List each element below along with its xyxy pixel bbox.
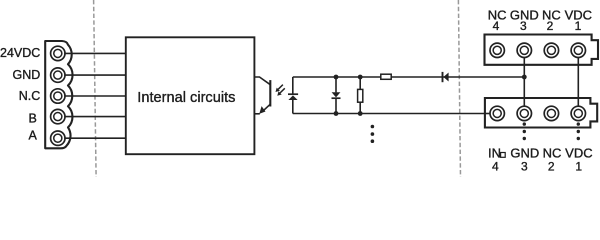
internal circuits block U1 <box>126 37 255 154</box>
left boundary dashed line (enclosure boundary) <box>94 0 97 177</box>
J2 label IN pin4 <box>488 145 505 160</box>
svg-text:Internal circuits: Internal circuits <box>137 90 235 106</box>
J1 pin 4 contact <box>490 43 504 57</box>
ellipsis continuation dots (J2 pin 1) <box>577 122 580 140</box>
wire VDC link top-to-bottom connector <box>577 58 579 107</box>
diode D3 (series, cathode left) <box>443 72 449 82</box>
wire 24VDC to internal circuits <box>64 52 126 54</box>
wire A to internal circuits <box>64 137 126 139</box>
optocoupler light arrow 2 <box>277 88 285 95</box>
junction dot bottom rail / R1 <box>358 111 363 116</box>
wire GND to internal circuits <box>64 74 126 76</box>
svg-text:1: 1 <box>575 160 582 174</box>
J2 pin 4 contact <box>490 106 504 120</box>
J1 pin 3 contact <box>517 43 531 57</box>
wire B to internal circuits <box>64 116 126 118</box>
J2 pin 3 contact <box>517 106 531 120</box>
terminal TB1-3 (N.C screw) <box>51 89 65 103</box>
svg-text:B: B <box>28 111 36 125</box>
svg-text:VDC: VDC <box>565 145 592 160</box>
wire N.C to internal circuits <box>64 95 126 97</box>
resistor R2 (series, horizontal) <box>381 74 391 79</box>
J1 pin 1 contact <box>571 43 585 57</box>
phototransistor Q1 collector lead <box>254 77 270 85</box>
terminal block TB1 body (scalloped) <box>45 41 72 148</box>
J2 pin 2 contact <box>544 106 558 120</box>
connector J1 body (top) <box>485 35 599 65</box>
svg-text:4: 4 <box>493 19 500 33</box>
svg-text:2: 2 <box>547 19 554 33</box>
junction dot top rail / D2 <box>334 75 339 80</box>
svg-text:3: 3 <box>520 19 527 33</box>
wire IN to J2 pin 4 <box>485 113 490 115</box>
wire GND link top-to-bottom connector <box>523 58 525 107</box>
svg-text:1: 1 <box>575 19 582 33</box>
phototransistor Q1 emitter lead with arrow <box>254 104 270 114</box>
phototransistor Q1 base bar <box>269 80 271 106</box>
junction dot bottom rail / D2 <box>334 111 339 116</box>
resistor R1 (shunt, vertical) <box>358 77 363 114</box>
J2 pin 1 stub <box>577 98 579 106</box>
svg-text:24VDC: 24VDC <box>0 46 40 60</box>
connector J2 body (bottom) <box>485 98 597 128</box>
svg-text:IN: IN <box>488 145 501 160</box>
svg-text:4: 4 <box>492 160 499 174</box>
J2 pin 3 stub <box>523 98 525 106</box>
svg-text:GND: GND <box>510 145 539 160</box>
right boundary dashed line (enclosure boundary) <box>458 0 460 177</box>
svg-text:NC: NC <box>543 145 562 160</box>
svg-text:2: 2 <box>548 160 555 174</box>
wire bottom rail <box>293 113 491 115</box>
LED D1 (optocoupler emitter diode, cathode up) <box>288 77 298 114</box>
junction dot top rail / GND link <box>522 75 527 80</box>
J1 pin 2 contact <box>544 43 558 57</box>
terminal TB1-4 (B screw) <box>51 109 65 123</box>
protection diode D2 (anti-parallel, cathode down) <box>332 77 341 114</box>
terminal TB1-2 (GND screw) <box>51 68 65 82</box>
ellipsis continuation dots (bottom rail) <box>371 125 375 143</box>
junction dot top rail / R1 <box>358 75 363 80</box>
J1 pin 3 stub <box>523 58 525 65</box>
optocoupler light arrow 1 <box>276 85 283 92</box>
ellipsis continuation dots (J2 pin 3) <box>523 122 526 140</box>
wire top rail <box>293 76 525 78</box>
J2 pin 1 contact <box>571 106 585 120</box>
svg-text:3: 3 <box>521 160 528 174</box>
svg-text:GND: GND <box>13 68 41 82</box>
J1 pin 1 stub <box>577 58 579 65</box>
terminal TB1-1 (24VDC screw) <box>51 46 65 60</box>
terminal TB1-5 (A screw) <box>51 131 65 145</box>
svg-text:A: A <box>28 128 37 142</box>
svg-text:N.C: N.C <box>19 89 41 103</box>
